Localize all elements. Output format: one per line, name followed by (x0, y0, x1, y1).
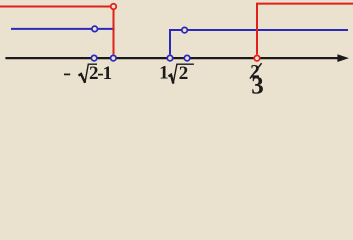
blue vertical rise at x=170 (169, 30, 171, 55)
blue axis circle at -sqrt2 (91, 55, 97, 61)
svg-text:3: 3 (251, 72, 264, 94)
svg-text:2: 2 (89, 63, 99, 84)
label minus of -1 (98, 74, 103, 76)
blue open circle on right segment at sqrt2 (182, 27, 188, 32)
blue segment left (y=28.9) (11, 28, 115, 30)
svg-text:1: 1 (159, 63, 169, 84)
axis (5, 57, 340, 59)
blue open circle on left segment at -sqrt2 (92, 26, 98, 32)
blue segment right (y=30) (169, 29, 348, 31)
red vertical drop at x=113.5 (113, 10, 115, 55)
label radical of sqrt2 (169, 75, 174, 84)
red open endpoint circle top left step (111, 4, 117, 10)
blue axis circle at 1 (167, 55, 173, 61)
blue axis circle at sqrt2 (184, 55, 190, 61)
label fraction slash (250, 63, 262, 78)
label radical of -sqrt2 (79, 74, 86, 83)
red vertical rise at x=257 (over blue) (256, 4, 258, 55)
svg-text:1: 1 (103, 63, 113, 84)
label minus of -sqrt2 (64, 73, 70, 75)
red segment left (y=6.5) (0, 6, 110, 8)
red axis circle at 2/3 (254, 55, 260, 61)
red vertical over blue crossing (113, 26, 115, 32)
svg-text:2: 2 (179, 63, 189, 84)
red segment right (y=3.6) (256, 3, 353, 5)
axis arrowhead (337, 54, 349, 62)
blue axis circle at -1 (111, 55, 117, 61)
